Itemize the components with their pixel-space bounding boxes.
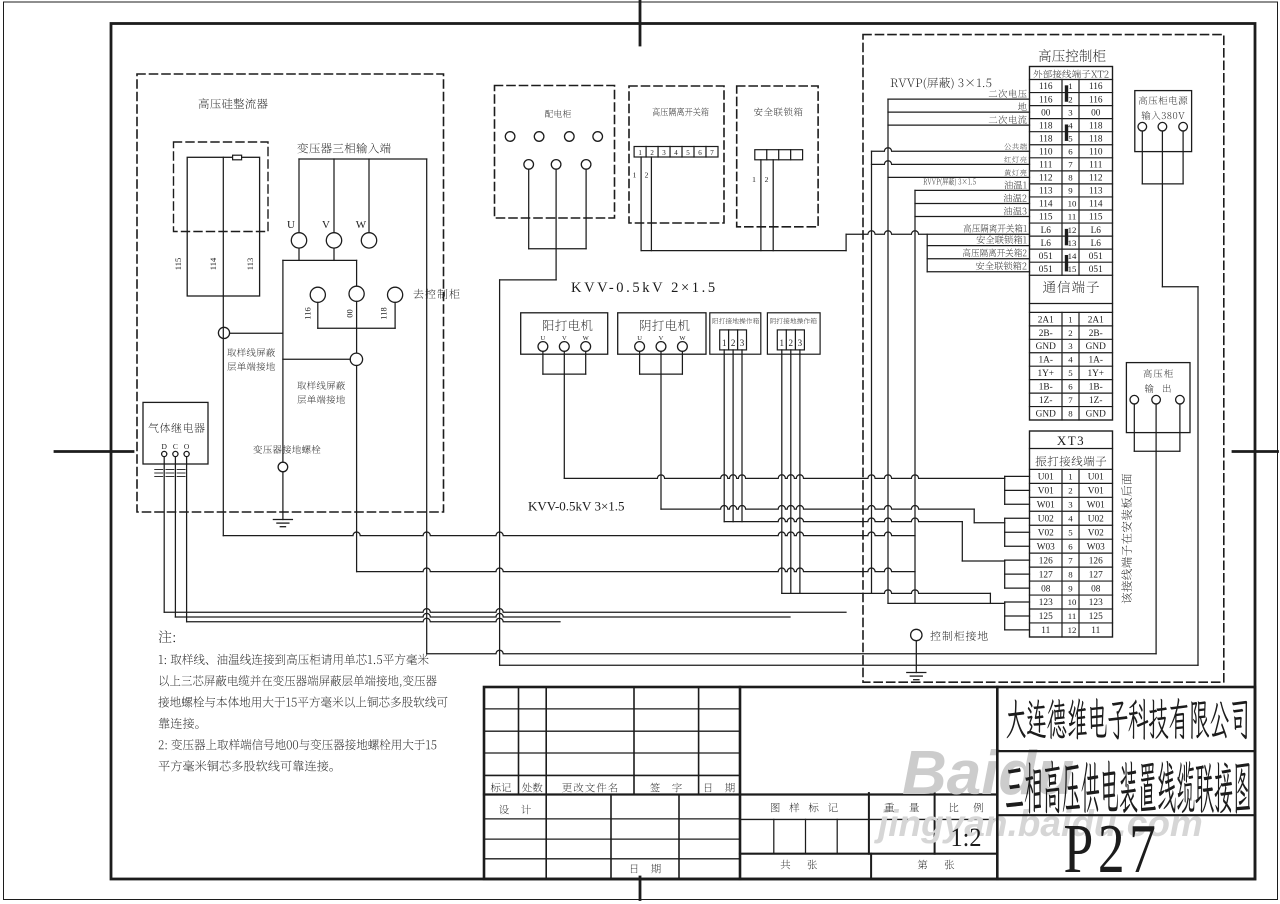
svg-text:U01: U01 xyxy=(1088,473,1104,483)
wire: row6 公共端 xyxy=(872,148,1030,152)
svg-text:3: 3 xyxy=(798,338,803,348)
svg-text:6: 6 xyxy=(1068,541,1073,551)
svg-text:114: 114 xyxy=(1039,200,1053,210)
svg-text:1A-: 1A- xyxy=(1039,356,1053,366)
label 去控制柜 xyxy=(414,289,460,299)
wire: tie bar 116-118 xyxy=(318,327,395,329)
svg-text:3: 3 xyxy=(1068,500,1073,510)
svg-text:10: 10 xyxy=(1068,199,1077,209)
wire: gas relay cable C xyxy=(175,613,790,617)
wire: cathode op-box lead 3 xyxy=(799,350,801,594)
svg-text:C: C xyxy=(173,442,178,451)
notes text block xyxy=(159,630,175,643)
anode op-box terminal cells 1 2 3 xyxy=(720,330,747,350)
svg-text:GND: GND xyxy=(1086,342,1106,352)
gas relay box 气体继电器 xyxy=(143,402,208,464)
svg-text:11: 11 xyxy=(1091,626,1100,636)
wire: cable to XT3 rows 10-12 xyxy=(888,602,1005,604)
svg-text:W01: W01 xyxy=(1087,501,1105,511)
wire: cathode cable to XT3 rows 4-6 xyxy=(974,522,1005,524)
wire: row9 油温1 xyxy=(915,189,1030,191)
label 控制柜接地 xyxy=(930,631,987,641)
HV cabinet supply box 高压柜电源 输入380V xyxy=(1135,91,1192,152)
svg-text:W: W xyxy=(356,219,367,231)
label 阳打电机 xyxy=(543,320,592,331)
dashed enclosure: HV isolating switch box 高压隔离开关箱 xyxy=(629,86,724,223)
svg-text:1A-: 1A- xyxy=(1089,356,1103,366)
svg-text:U: U xyxy=(637,335,642,342)
svg-text:2: 2 xyxy=(765,175,769,184)
svg-text:123: 123 xyxy=(1039,598,1053,608)
svg-text:115: 115 xyxy=(1039,213,1053,223)
svg-text:3: 3 xyxy=(1068,107,1073,117)
top centre registration tick xyxy=(639,0,642,45)
svg-text:V: V xyxy=(562,335,567,342)
operation box 阴打接地操作箱 xyxy=(767,313,820,354)
svg-text:113: 113 xyxy=(245,258,255,270)
svg-text:6: 6 xyxy=(1068,146,1073,156)
dashed enclosure: distribution cabinet 配电柜 xyxy=(495,86,615,219)
svg-text:1: 1 xyxy=(638,149,642,157)
label 日期 (bottom) xyxy=(631,864,661,873)
wire: branch from bracket right end down to terminal 00 xyxy=(356,260,358,286)
terminal circle V xyxy=(326,233,341,248)
svg-text:7: 7 xyxy=(1068,395,1073,405)
svg-text:2A1: 2A1 xyxy=(1038,315,1054,325)
svg-text:13: 13 xyxy=(1068,238,1077,248)
svg-text:5: 5 xyxy=(1068,133,1073,143)
svg-text:2: 2 xyxy=(650,149,654,157)
svg-text:114: 114 xyxy=(208,257,218,270)
label 安全联锁箱2 xyxy=(976,262,1027,271)
wire: shield circle branch to earth-bolt line xyxy=(283,358,350,360)
XT3 stair rows 1-3 xyxy=(1004,476,1006,504)
wire: interlock bus xyxy=(641,250,846,252)
svg-text:4: 4 xyxy=(1068,355,1073,365)
svg-text:14: 14 xyxy=(1068,251,1077,261)
shield marks on relay leads xyxy=(155,469,163,471)
svg-text:W: W xyxy=(583,335,590,342)
wire: 118 drop to tie bar xyxy=(394,302,396,328)
svg-text:2: 2 xyxy=(1068,328,1072,338)
wire: cathode motor U drop xyxy=(639,351,641,374)
terminal circle 00 xyxy=(349,286,364,301)
svg-text:Baidu: Baidu xyxy=(902,739,1074,808)
svg-text:1Z-: 1Z- xyxy=(1089,396,1102,406)
svg-text:115: 115 xyxy=(173,258,183,270)
wire: anode motor tie bar xyxy=(543,373,586,375)
gas relay terminal circle D xyxy=(162,451,167,456)
svg-text:11: 11 xyxy=(1041,626,1050,636)
wire: switch box terminal 1 drop xyxy=(640,157,642,251)
svg-text:V01: V01 xyxy=(1038,487,1054,497)
vertical bus B inside cabinet xyxy=(887,99,889,603)
svg-text:116: 116 xyxy=(1039,95,1053,105)
label 高压控制柜 xyxy=(1039,49,1106,62)
wire: output bracket right xyxy=(1179,404,1181,451)
svg-text:12: 12 xyxy=(1068,625,1077,635)
XT3 stair rows 7-9 xyxy=(1004,560,1006,588)
svg-text:9: 9 xyxy=(1068,583,1073,593)
svg-text:U: U xyxy=(541,335,546,342)
wire: earth-bolt branch down from bracket xyxy=(282,260,284,462)
wire: relay D lead down xyxy=(163,457,165,613)
wire: anode op-box lead 1 xyxy=(723,350,725,522)
comm terminal column lines xyxy=(1061,312,1063,420)
wire: dist. cab terminal 1 drop xyxy=(528,169,530,249)
wire: row14 switch box 2 xyxy=(927,258,1029,260)
terminal circle U xyxy=(291,233,306,248)
wire: output bracket bar xyxy=(1134,450,1180,452)
wire: row8 黄灯亮 xyxy=(888,176,1030,178)
label 外部接线端子XT2 xyxy=(1033,70,1108,79)
XT3 rows and values xyxy=(1030,468,1113,470)
svg-text:V01: V01 xyxy=(1088,487,1104,497)
svg-text:7: 7 xyxy=(1068,555,1073,565)
title block: revision grid horizontals xyxy=(484,708,740,710)
motor box 阴打电机 xyxy=(618,313,706,354)
ground symbol: transformer earth xyxy=(273,519,292,521)
wire: relay O lead down xyxy=(186,457,188,622)
svg-text:U: U xyxy=(287,219,295,231)
title block: middle column divider xyxy=(739,687,742,879)
wire: dist. cab tie bar xyxy=(529,248,586,250)
svg-text:P27: P27 xyxy=(1064,811,1161,888)
distribution cabinet lower terminal circles xyxy=(524,160,534,170)
terminal table XT3 frame xyxy=(1030,431,1113,637)
row labels 标记 处数 更改文件名 签字 日期 xyxy=(491,783,511,792)
svg-text:00: 00 xyxy=(345,309,355,318)
drawing-mark section lines xyxy=(740,793,997,795)
XT2 jumper links (rows 1-2, 4-5, 12-13, 14-15) xyxy=(1065,87,1068,100)
wire: anode op-box lead 2 xyxy=(732,350,734,522)
terminal table XT2 frame xyxy=(1030,67,1113,421)
switch box terminal strip (7 cells) xyxy=(634,147,718,158)
svg-text:D: D xyxy=(161,442,167,451)
dashed box around transformer top section xyxy=(174,142,269,232)
node: sampling-cable shield earth circle (on 114 line) xyxy=(218,327,229,338)
wire: row7 红灯亮 xyxy=(872,161,1030,165)
wire: anode op-box cable jog down xyxy=(961,522,963,561)
svg-text:1B-: 1B- xyxy=(1039,383,1053,393)
svg-text:2: 2 xyxy=(731,338,736,348)
svg-text:1: 1 xyxy=(722,338,727,348)
drawing-mark small cells xyxy=(773,819,775,853)
svg-text:118: 118 xyxy=(1039,121,1053,131)
svg-text:L6: L6 xyxy=(1041,226,1052,236)
wire: row11 油温3 xyxy=(915,216,1030,218)
svg-text:1:2: 1:2 xyxy=(951,823,982,852)
svg-text:1: 1 xyxy=(780,338,785,348)
ladder stair for rows 13-15 xyxy=(926,234,928,271)
svg-text:118: 118 xyxy=(379,307,389,319)
wire: anode op-box cable to XT3 rows 7-9 xyxy=(962,560,1004,562)
right centre registration tick xyxy=(1233,450,1278,453)
wire: cathode cable jog down xyxy=(973,509,975,523)
XT3 stair rows 10-12 xyxy=(1004,602,1006,630)
wire: cathode motor cable down xyxy=(660,351,662,509)
wire: cathode motor W drop xyxy=(681,351,683,374)
svg-text:5: 5 xyxy=(1068,527,1073,537)
svg-text:051: 051 xyxy=(1089,252,1103,262)
wire: anode op-box lead 3 xyxy=(741,350,743,522)
label 高压隔离开关箱1 xyxy=(964,224,1027,233)
XT3 column lines xyxy=(1061,469,1063,637)
wire: three-phase input header xyxy=(299,158,427,160)
label 取样线屏蔽 / 层单端接地 (first) xyxy=(227,348,275,357)
wire: switch box terminal 2 drop xyxy=(650,157,652,251)
wire: supply centre feed xyxy=(1161,131,1163,287)
svg-text:116: 116 xyxy=(1039,82,1053,92)
svg-text:116: 116 xyxy=(303,307,313,319)
svg-text:GND: GND xyxy=(1086,409,1106,419)
svg-text:8: 8 xyxy=(1068,173,1073,183)
svg-text:111: 111 xyxy=(1039,161,1053,171)
svg-text:2: 2 xyxy=(645,171,649,180)
title block: right section divider xyxy=(996,687,999,879)
terminal circle 116 xyxy=(310,287,325,302)
wire: row10 油温2 xyxy=(915,202,1030,204)
transformer body rectangle xyxy=(187,157,259,296)
wire: earth bolt down to ground xyxy=(282,472,284,520)
wire: phase cable along bottom to HV cabinet output xyxy=(427,650,1156,654)
wire: gas relay cable D xyxy=(164,609,846,613)
label 通信端子 xyxy=(1043,281,1099,293)
transformer bushing component on top edge xyxy=(233,155,242,160)
supply box terminal circles xyxy=(1138,122,1147,131)
svg-text:2: 2 xyxy=(789,338,794,348)
svg-text:2: 2 xyxy=(1068,486,1072,496)
wire: row2 二次电压 xyxy=(888,98,1030,100)
node: sampling-cable shield earth circle (on 00 line) xyxy=(350,353,362,365)
wire: safety box terminal 1 drop xyxy=(760,160,762,251)
wire: output centre feed down xyxy=(1155,404,1157,654)
wire: bracket joining U V to 00 line xyxy=(283,259,357,261)
wire: row3 地 xyxy=(888,111,1030,113)
svg-text:114: 114 xyxy=(1089,200,1103,210)
svg-text:112: 112 xyxy=(1089,174,1103,184)
svg-text:11: 11 xyxy=(1068,212,1076,222)
wire: transformer 00 sampling cable xyxy=(356,366,358,572)
wire: cathode op-box cable jog down xyxy=(989,593,991,603)
svg-text:L6: L6 xyxy=(1091,226,1102,236)
transformer centre winding line (114) xyxy=(222,157,224,296)
svg-text:1Z-: 1Z- xyxy=(1039,396,1052,406)
wire: interlock bus step up xyxy=(845,234,847,250)
wire: row4 二次电流 xyxy=(888,124,1030,126)
svg-text:113: 113 xyxy=(1089,187,1103,197)
wire: V drop xyxy=(333,159,335,233)
svg-text:118: 118 xyxy=(1039,134,1053,144)
wire: W drop xyxy=(368,159,370,233)
svg-text:3: 3 xyxy=(1068,341,1073,351)
svg-text:11: 11 xyxy=(1068,611,1076,621)
gas relay terminal circle C xyxy=(173,451,178,456)
svg-text:8: 8 xyxy=(1068,408,1073,418)
left centre registration tick xyxy=(55,450,133,453)
svg-text:126: 126 xyxy=(1039,556,1053,566)
wire: dist. cab centre feed down-left xyxy=(555,169,557,280)
label 振打接线端子 xyxy=(1036,456,1107,467)
wire: cathode op-box lead 1 xyxy=(781,350,783,594)
label 阴打接地操作箱 xyxy=(770,318,817,324)
wire: gas relay cable O xyxy=(187,618,560,622)
svg-text:W03: W03 xyxy=(1037,542,1055,552)
svg-text:V02: V02 xyxy=(1038,528,1054,538)
dashed enclosure: HV control cabinet 高压控制柜 xyxy=(863,35,1224,683)
svg-text:110: 110 xyxy=(1039,147,1053,157)
wire: output bracket left xyxy=(1133,404,1135,451)
label 设计 xyxy=(499,805,531,814)
svg-text:W03: W03 xyxy=(1087,542,1105,552)
wire: cabinet earth lead xyxy=(915,641,917,673)
wire: anode motor cable to XT3 rows 1-3 xyxy=(564,475,1004,479)
svg-text:00: 00 xyxy=(1041,108,1051,118)
label 比例 xyxy=(950,803,983,813)
dashed enclosure: high-voltage silicon rectifier cabinet xyxy=(137,74,444,512)
svg-text:15: 15 xyxy=(1068,264,1077,274)
terminal circle 118 xyxy=(388,287,403,302)
title block: designer grid xyxy=(484,793,740,795)
svg-text:1: 1 xyxy=(1068,81,1072,91)
wire: V below terminal xyxy=(333,248,335,260)
output box terminal circles xyxy=(1130,395,1139,404)
wire: transformer sampling cable (114) xyxy=(223,532,915,536)
svg-text:XT3: XT3 xyxy=(1057,433,1085,448)
operation box 阳打接地操作箱 xyxy=(710,313,761,354)
svg-text:L6: L6 xyxy=(1091,239,1102,249)
svg-text:112: 112 xyxy=(1039,174,1053,184)
svg-text:5: 5 xyxy=(1068,368,1073,378)
company row divider xyxy=(997,750,1255,752)
wire: 114 sampling line down inside enclosure xyxy=(222,296,224,536)
label 重量 xyxy=(884,803,918,812)
wire: U drop xyxy=(298,159,300,233)
svg-text:9: 9 xyxy=(1068,186,1073,196)
svg-text:1: 1 xyxy=(1068,472,1072,482)
label 取样线屏蔽 / 层单端接地 (second) xyxy=(297,381,345,390)
wire: supply bracket right xyxy=(1182,131,1184,184)
wire: U below terminal xyxy=(298,248,300,260)
wire: cathode op-box lead 2 xyxy=(790,350,792,594)
svg-text:GND: GND xyxy=(1036,342,1056,352)
ground symbol: control cabinet earth xyxy=(907,672,926,674)
wire: safety box terminal 2 drop xyxy=(772,160,774,251)
vertical bus C inside cabinet xyxy=(914,190,916,603)
wire: 00 line down to shield-earth circle xyxy=(356,301,358,353)
svg-text:08: 08 xyxy=(1041,584,1051,594)
label 高压硅整流器 xyxy=(199,98,268,109)
svg-text:126: 126 xyxy=(1089,556,1103,566)
svg-text:123: 123 xyxy=(1089,598,1103,608)
svg-text:3: 3 xyxy=(740,338,745,348)
node: transformer earth bolt circle xyxy=(278,462,288,472)
label RVVP(屏蔽) 3×1.5 (small) xyxy=(923,178,975,187)
wire: anode motor cable down xyxy=(563,351,565,478)
svg-text:U02: U02 xyxy=(1038,514,1054,524)
label RVVP(屏蔽) 3×1.5 (large) xyxy=(891,77,992,89)
svg-text:KVV-0.5kV 2×1.5: KVV-0.5kV 2×1.5 xyxy=(571,280,718,296)
svg-text:115: 115 xyxy=(1089,213,1103,223)
wire: dist. cab terminal 3 drop xyxy=(585,169,587,249)
wire: 116 drop to tie bar xyxy=(317,302,319,328)
svg-text:125: 125 xyxy=(1039,612,1053,622)
wire: anode op-box cable xyxy=(724,518,962,522)
vertical bus A inside cabinet xyxy=(871,151,873,593)
svg-text:00: 00 xyxy=(1091,108,1101,118)
label 变压器三相输入端 xyxy=(297,143,390,154)
svg-text:V02: V02 xyxy=(1088,528,1104,538)
svg-text:7: 7 xyxy=(710,149,714,157)
dashed enclosure: safety interlock box 安全联锁箱 xyxy=(737,86,818,227)
svg-text:4: 4 xyxy=(674,149,678,157)
svg-text:V: V xyxy=(322,219,330,231)
svg-text:127: 127 xyxy=(1039,570,1053,580)
wire: anode motor U drop xyxy=(542,351,544,374)
wire: row13 safety interlock 1 xyxy=(927,245,1029,247)
wire: cathode motor tie bar xyxy=(640,373,683,375)
svg-text:2B-: 2B- xyxy=(1089,329,1103,339)
svg-text:GND: GND xyxy=(1036,409,1056,419)
label 共 张 xyxy=(781,860,817,870)
svg-text:8: 8 xyxy=(1068,569,1073,579)
label 高压隔离开关箱2 xyxy=(963,248,1027,257)
svg-text:118: 118 xyxy=(1089,134,1103,144)
svg-text:12: 12 xyxy=(1068,225,1077,235)
anode motor terminal circles xyxy=(538,342,548,352)
gas relay terminal circle O xyxy=(184,451,189,456)
wire: relay C lead down xyxy=(174,457,176,617)
label 配电柜 xyxy=(545,110,571,118)
comm terminal separator lines xyxy=(1030,303,1113,305)
svg-text:1Y+: 1Y+ xyxy=(1037,369,1054,379)
safety box terminal strip (4 cells) xyxy=(755,150,803,160)
svg-text:051: 051 xyxy=(1089,265,1103,275)
motor box 阳打电机 xyxy=(521,313,608,354)
svg-text:1: 1 xyxy=(1068,314,1072,324)
svg-text:4: 4 xyxy=(1068,120,1073,130)
svg-text:2A1: 2A1 xyxy=(1088,315,1104,325)
svg-text:118: 118 xyxy=(1089,121,1103,131)
svg-text:1: 1 xyxy=(752,175,756,184)
svg-text:W01: W01 xyxy=(1037,501,1055,511)
label 图样标记 xyxy=(771,803,838,813)
svg-text:W: W xyxy=(679,335,686,342)
comm terminal rows xyxy=(1030,311,1113,313)
wire: supply cable along bottom xyxy=(500,664,1198,666)
svg-text:08: 08 xyxy=(1091,584,1101,594)
svg-text:3: 3 xyxy=(662,149,666,157)
svg-text:6: 6 xyxy=(698,149,702,157)
sheet count divider xyxy=(870,854,872,879)
label 变压器接地螺栓 xyxy=(253,445,320,454)
svg-text:116: 116 xyxy=(1089,95,1103,105)
wire: interlock feed into cabinet (row 12) xyxy=(846,231,1029,235)
label 第 张 xyxy=(918,860,954,870)
svg-text:125: 125 xyxy=(1089,612,1103,622)
XT2 row lines and values xyxy=(1030,79,1113,81)
bottom centre registration tick xyxy=(639,877,642,900)
wire: transformer phase cable down right side xyxy=(426,159,428,654)
svg-text:1Y+: 1Y+ xyxy=(1087,369,1104,379)
node: cabinet earth circle 控制柜接地 xyxy=(911,629,922,640)
svg-text:1B-: 1B- xyxy=(1089,383,1103,393)
terminal circle W xyxy=(361,233,376,248)
svg-text:051: 051 xyxy=(1039,252,1053,262)
vertical note 该接线端子在安装板后面 xyxy=(1121,474,1132,603)
label 气体继电器 xyxy=(148,423,204,433)
wire: cathode op-box cable xyxy=(782,590,991,594)
